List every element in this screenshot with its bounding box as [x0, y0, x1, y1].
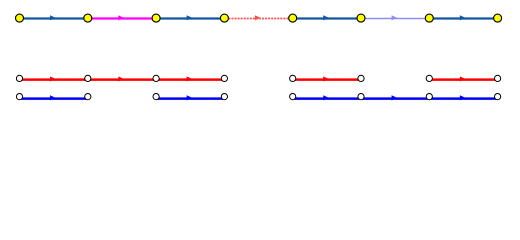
node R4 (white): [221, 75, 227, 81]
node R2 (white): [85, 75, 91, 81]
wire red edge 5-6: [293, 76, 361, 81]
node R8 (white): [495, 75, 501, 81]
wire top edge 1-2 (dark blue): [20, 15, 88, 20]
node T5 (yellow): [289, 14, 297, 22]
wire blue edge 1-2: [20, 95, 88, 100]
node R6 (white): [358, 75, 364, 81]
wire blue edge 6-7: [361, 95, 429, 100]
node T3 (yellow): [152, 14, 160, 22]
node R3 (white): [153, 75, 159, 81]
node B8 (white): [495, 94, 501, 100]
node R7 (white): [426, 75, 432, 81]
wire red edge 1-2: [20, 76, 88, 81]
wire red edge 2-3: [88, 76, 156, 81]
node B1 (white): [16, 94, 22, 100]
node T6 (yellow): [357, 14, 365, 22]
node T8 (yellow): [494, 14, 502, 22]
node T7 (yellow): [425, 14, 433, 22]
wire top edge 7-8 (dark blue): [429, 15, 497, 20]
wire top edge 6-7 (periwinkle): [361, 15, 429, 20]
node R5 (white): [290, 75, 296, 81]
wire top edge 5-6 (dark blue): [293, 15, 361, 20]
node R1 (white): [16, 75, 22, 81]
wire red edge 3-4: [156, 76, 224, 81]
wire top edge 2-3 (magenta): [88, 15, 156, 20]
node T1 (yellow): [16, 14, 24, 22]
node B4 (white): [221, 94, 227, 100]
wire blue edge 3-4: [156, 95, 224, 100]
wire top edge 4-5 (red dashed): [225, 15, 291, 20]
wire blue edge 7-8: [429, 95, 497, 100]
node T4 (yellow): [220, 14, 228, 22]
node B7 (white): [426, 94, 432, 100]
node B5 (white): [290, 94, 296, 100]
node T2 (yellow): [84, 14, 92, 22]
wire red edge 7-8: [429, 76, 497, 81]
node B3 (white): [153, 94, 159, 100]
node B6 (white): [358, 94, 364, 100]
wire blue edge 5-6: [293, 95, 361, 100]
wire top edge 3-4 (dark blue): [156, 15, 224, 20]
node B2 (white): [85, 94, 91, 100]
